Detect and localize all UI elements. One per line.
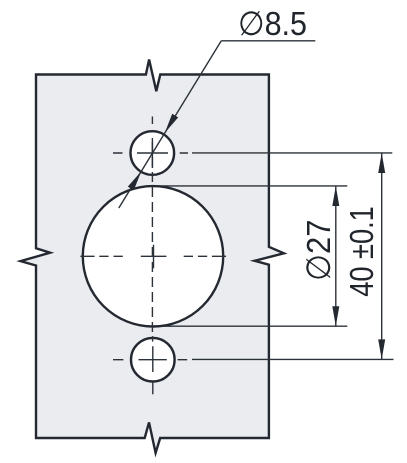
leader line d8.5 (shoulder) bbox=[221, 40, 315, 42]
centre mark cup hole (cross) bbox=[141, 245, 167, 268]
arrowhead 40 top bbox=[378, 153, 385, 173]
centre mark bottom hole (cross) bbox=[139, 346, 167, 372]
arrowhead 40 bottom bbox=[378, 339, 385, 359]
centre mark cup hole (horizontal dashes) bbox=[80, 255, 226, 257]
screw hole bottom d8.5 bbox=[131, 338, 175, 382]
centre mark bottom hole (horizontal dashes) bbox=[113, 359, 187, 361]
screw hole top d8.5 bbox=[131, 131, 175, 175]
vertical centre line (dash below bottom hole) bbox=[152, 382, 154, 394]
svg-text:∅27: ∅27 bbox=[301, 219, 338, 281]
leader line d8.5 (diagonal through top hole) bbox=[119, 41, 222, 208]
extension line (d27 top tangent) bbox=[157, 185, 347, 187]
cup hole d27 bbox=[83, 186, 223, 326]
vertical centre line (dashed, top hole to below cup) bbox=[151, 142, 153, 333]
plate (broken-out section outline with fill) bbox=[21, 60, 284, 453]
dimension line d27 bbox=[335, 186, 337, 326]
leader arrowhead lower (points at hole edge) bbox=[128, 171, 142, 190]
leader arrowhead upper (points at hole edge) bbox=[165, 114, 178, 133]
svg-text:40 ±0.1: 40 ±0.1 bbox=[344, 206, 381, 297]
svg-text:∅8.5: ∅8.5 bbox=[238, 6, 307, 43]
centre mark top hole (horizontal dashes) bbox=[113, 152, 188, 154]
arrowhead d27 top bbox=[332, 186, 339, 206]
extension line (40 dim, bottom hole centre) bbox=[192, 358, 394, 360]
vertical centre line (short dash above bottom hole) bbox=[152, 336, 154, 342]
vertical centre line (dash above top hole) bbox=[151, 117, 153, 125]
centre mark top hole (cross) bbox=[137, 138, 168, 168]
arrowhead d27 bottom bbox=[332, 306, 339, 326]
extension line (40 dim, top hole centre) bbox=[192, 152, 392, 154]
dimension line 40 bbox=[381, 153, 383, 359]
extension line (d27 bottom tangent) bbox=[144, 325, 348, 327]
